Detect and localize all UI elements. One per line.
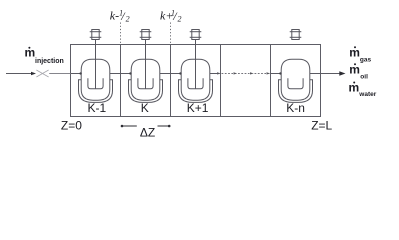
svg-text:Z=0: Z=0 [61, 119, 82, 133]
svg-text:oil: oil [360, 74, 368, 81]
continuation arrowhead 3 [250, 72, 254, 74]
continuation dashed wire b [238, 73, 250, 75]
svg-text:K-n: K-n [286, 101, 305, 115]
cell divider k+1/2 [170, 45, 172, 117]
tank K-1 [79, 59, 113, 102]
tank K [129, 59, 163, 102]
svg-text:2: 2 [178, 15, 182, 24]
outlet wire [310, 73, 340, 75]
label k-1/2 [110, 9, 130, 24]
svg-text:gas: gas [360, 56, 372, 63]
label m-dot injection [25, 45, 64, 65]
wire box edge to tank K-1 [71, 73, 81, 75]
injection valve X [36, 70, 48, 77]
motor K-1 [90, 30, 102, 40]
shaft K [145, 40, 147, 89]
svg-text:water: water [358, 91, 376, 98]
injection arrowhead [31, 72, 36, 76]
cell divider 4 [270, 45, 272, 117]
cell divider k-1/2 [120, 45, 122, 117]
svg-text:k-: k- [110, 9, 119, 23]
shaft K-1 [95, 40, 97, 89]
tank K+1 [179, 59, 213, 102]
continuation dashed wire c [255, 73, 267, 75]
wire K+1 to continuation [210, 73, 217, 75]
continuation arrowhead 1 [217, 72, 221, 74]
continuation arrowhead 2 [234, 72, 238, 74]
cell divider 3 [220, 45, 222, 117]
label m-dot gas [349, 46, 371, 64]
dotted grid line k-1/2 [120, 23, 122, 45]
motor K [140, 30, 152, 40]
label m-dot oil [349, 62, 368, 80]
delta-Z dimension left dot [121, 125, 124, 128]
motor K-n [290, 30, 302, 40]
continuation dashed wire a [222, 73, 234, 75]
svg-text:ΔZ: ΔZ [140, 126, 155, 140]
shaft K+1 [195, 40, 197, 89]
injection feed line [6, 73, 32, 75]
svg-text:injection: injection [35, 58, 64, 65]
svg-text:Z=L: Z=L [311, 119, 332, 133]
svg-text:2: 2 [126, 15, 130, 24]
delta-Z dimension right dot [168, 125, 171, 128]
tank K-n [279, 59, 313, 102]
svg-text:K-1: K-1 [88, 101, 107, 115]
dotted grid line k+1/2 [170, 23, 172, 45]
label k+1/2 [160, 9, 182, 24]
label m-dot water [349, 81, 377, 98]
svg-text:K: K [141, 101, 149, 115]
node dot tank K+1 inlet [179, 72, 181, 74]
cell row box [71, 45, 321, 117]
delta-Z dimension left segment [122, 125, 137, 127]
node dot tank K-1 inlet [80, 72, 82, 74]
delta-Z dimension right segment [158, 125, 170, 127]
valve to box wire [49, 73, 70, 75]
wire K to K+1 [160, 73, 181, 75]
wire divider to tank K-n [271, 73, 281, 75]
outlet arrowhead [339, 71, 345, 76]
svg-text:K+1: K+1 [187, 101, 209, 115]
wire K-1 to K [110, 73, 131, 75]
node dot tank K-n inlet [279, 72, 281, 74]
continuation arrowhead 4 [267, 72, 271, 74]
motor K+1 [190, 30, 202, 40]
node dot tank K inlet [129, 72, 131, 74]
